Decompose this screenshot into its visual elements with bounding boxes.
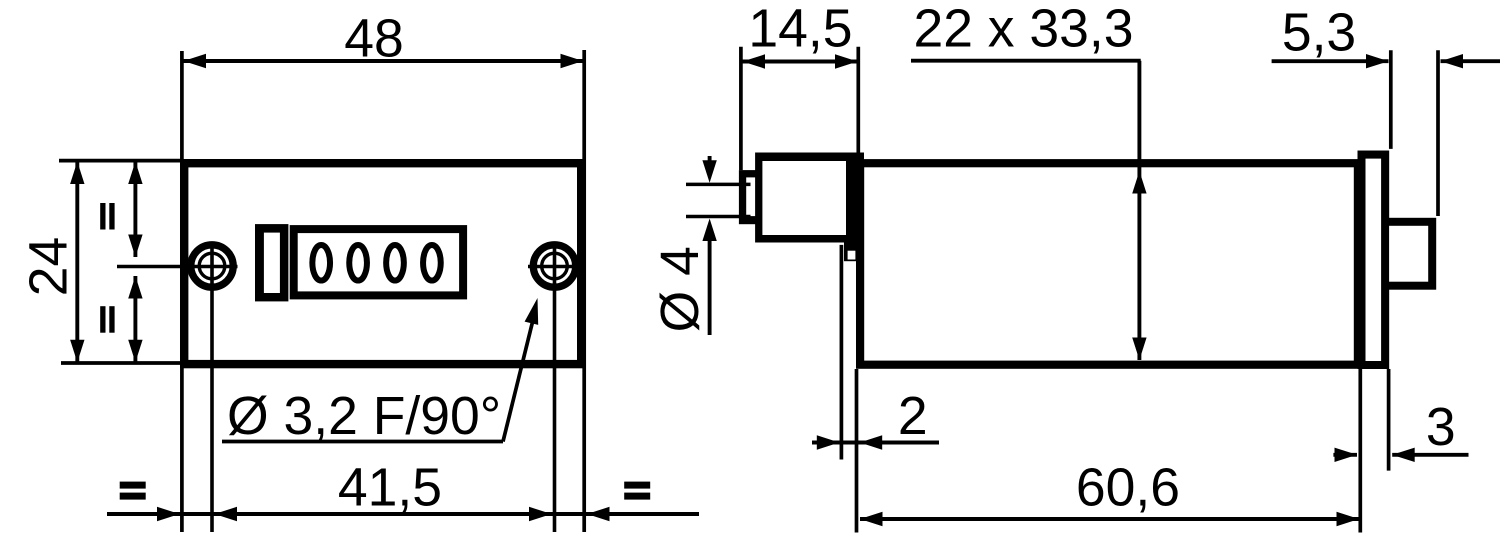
svg-text:3: 3 <box>1426 398 1456 457</box>
half-height dimension line upper segment <box>133 162 137 258</box>
svg-text:5,3: 5,3 <box>1282 3 1356 62</box>
dimension 60,6 line <box>860 517 1359 521</box>
mounting hole right <box>533 245 575 287</box>
dimension Ø4 lower tail <box>708 240 712 335</box>
dimension Ø4 arrow up <box>702 219 716 242</box>
41,5 left arrow (pointing left) <box>215 507 238 521</box>
clip plate line <box>840 245 844 460</box>
extension line right edge (48 dim) <box>582 50 586 532</box>
digit 0 #4 <box>423 245 441 281</box>
dimension 24 arrow top <box>70 162 84 185</box>
svg-text:41,5: 41,5 <box>338 459 442 518</box>
dimension 60,6 arrow left <box>860 512 883 526</box>
half-height lower arrow bottom <box>128 340 142 363</box>
dimension 2 arrow (pointing left) <box>860 435 883 449</box>
extension line bottom (24 dim) <box>61 361 181 365</box>
half-height lower arrow top <box>128 276 142 299</box>
svg-text:48: 48 <box>344 10 404 69</box>
dimension 14,5 line <box>743 60 858 64</box>
dimension 3: flange-right extension <box>1387 369 1391 471</box>
svg-text:60,6: 60,6 <box>1076 459 1180 518</box>
horizontal centerline right hole <box>528 265 581 269</box>
dimension 5,3: shaft extension <box>1436 50 1440 216</box>
dimension 14,5 arrow right <box>835 54 858 68</box>
equality mark bottom-right <box>624 482 650 500</box>
dimension 3 arrow (pointing left) <box>1392 448 1415 462</box>
dimension 60,6 arrow right <box>1337 512 1360 526</box>
side body <box>860 163 1358 365</box>
vertical centerline right hole <box>553 242 557 533</box>
dimension 48 arrow right <box>561 54 584 68</box>
dimension 5,3 line <box>1272 59 1389 63</box>
counter display window <box>294 229 463 295</box>
dimension 14,5 arrow left <box>743 54 766 68</box>
push button cap <box>739 170 757 224</box>
dimension 24 line <box>75 162 79 363</box>
dimension 3: flange-left extension <box>1358 369 1362 533</box>
equality mark bottom-left <box>120 482 146 500</box>
vertical centerline left hole <box>210 242 214 533</box>
dimension 48 arrow left <box>184 54 207 68</box>
dimension 22x33,3 leader line <box>911 59 1141 63</box>
hole label leader line <box>503 320 533 442</box>
rear shaft button <box>1385 222 1432 286</box>
half-height upper arrow top <box>128 162 142 185</box>
dimension Ø4: lower extension line <box>686 215 751 219</box>
dimension 2 arrow (pointing right) <box>817 435 840 449</box>
dimension 14,5: left extension <box>739 47 743 170</box>
digit 0 #2 <box>349 245 367 281</box>
hole label underline <box>222 440 503 444</box>
dimension 3 arrow (pointing right) <box>1335 448 1358 462</box>
equality mark upper (rotated =) <box>100 203 114 230</box>
svg-text:Ø 4: Ø 4 <box>651 246 710 332</box>
equality mark lower (rotated =) <box>100 306 114 333</box>
svg-text:14,5: 14,5 <box>748 0 852 59</box>
front panel body <box>184 163 581 364</box>
right = arrow (pointing left) <box>587 507 610 521</box>
hole label leader arrow <box>525 298 539 325</box>
dimension 33,3 arrow down <box>1132 338 1146 361</box>
extension line left edge (48 dim) <box>180 51 184 532</box>
dimension Ø4 arrow down <box>702 160 716 183</box>
mounting hole left <box>191 245 233 287</box>
push button housing <box>755 153 864 243</box>
svg-text:Ø 3,2 F/90°: Ø 3,2 F/90° <box>227 387 501 446</box>
dimension 24 arrow bottom <box>70 340 84 363</box>
dimension 3 left line <box>1333 453 1357 457</box>
dimension 5,3 tail line <box>1441 59 1500 63</box>
half-height dimension line lower segment <box>133 276 137 362</box>
counter reset button <box>255 224 288 301</box>
bottom dimension line (common, 41,5 and = =) <box>107 512 699 516</box>
rear flange <box>1362 155 1386 365</box>
dimension 5,3 arrow (pointing right) <box>1366 54 1389 68</box>
dimension Ø4: upper extension line <box>686 183 751 187</box>
half-height upper arrow bottom <box>128 235 142 258</box>
dimension 5,3 arrow (pointing left) <box>1441 54 1464 68</box>
svg-text:24: 24 <box>20 237 79 297</box>
horizontal centerline through left hole <box>117 265 238 269</box>
dimension 2 line <box>812 441 939 445</box>
dimension 3 right line <box>1392 453 1468 457</box>
svg-text:2: 2 <box>898 387 928 446</box>
digit 0 #1 <box>312 245 330 281</box>
digit 0 #3 <box>386 245 404 281</box>
41,5 right arrow (pointing right) <box>529 507 552 521</box>
dimension 5,3: flange extension <box>1389 50 1393 149</box>
svg-text:22 x 33,3: 22 x 33,3 <box>913 0 1133 59</box>
dimension Ø4 upper tail <box>708 156 712 161</box>
clip notch block <box>844 241 864 262</box>
extension line body-left (60,6 / 2 dim) <box>855 369 859 533</box>
dimension 48 line <box>183 59 584 63</box>
dimension 14,5: right extension <box>856 47 860 158</box>
dimension 33,3 vertical line <box>1137 61 1141 360</box>
extension line top (24 dim) <box>59 159 181 163</box>
rear flange redraw (covers shaft left) <box>1362 155 1386 365</box>
left = arrow (pointing right) <box>157 507 180 521</box>
dimension 33,3 arrow up <box>1132 171 1146 194</box>
